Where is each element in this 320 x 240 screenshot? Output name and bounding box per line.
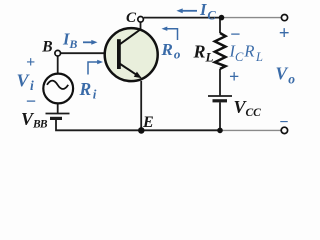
svg-text:+: + — [279, 23, 290, 44]
svg-text:VBB: VBB — [21, 109, 48, 131]
svg-text:+: + — [229, 67, 239, 87]
svg-text:−: − — [230, 24, 241, 44]
svg-text:VCC: VCC — [234, 97, 262, 119]
svg-text:−: − — [279, 114, 289, 131]
svg-text:Vi: Vi — [17, 71, 35, 94]
svg-text:IB: IB — [62, 30, 77, 52]
svg-text:C: C — [126, 10, 137, 26]
svg-text:Ro: Ro — [161, 40, 181, 62]
svg-text:ICRL: ICRL — [229, 41, 263, 64]
svg-text:Ri: Ri — [79, 79, 97, 102]
svg-text:IC: IC — [199, 0, 216, 23]
svg-text:Vo: Vo — [276, 64, 296, 87]
svg-text:+: + — [26, 54, 35, 71]
svg-text:B: B — [41, 39, 52, 56]
svg-text:E: E — [142, 114, 154, 131]
svg-text:−: − — [25, 91, 36, 111]
svg-text:RL: RL — [193, 42, 214, 65]
